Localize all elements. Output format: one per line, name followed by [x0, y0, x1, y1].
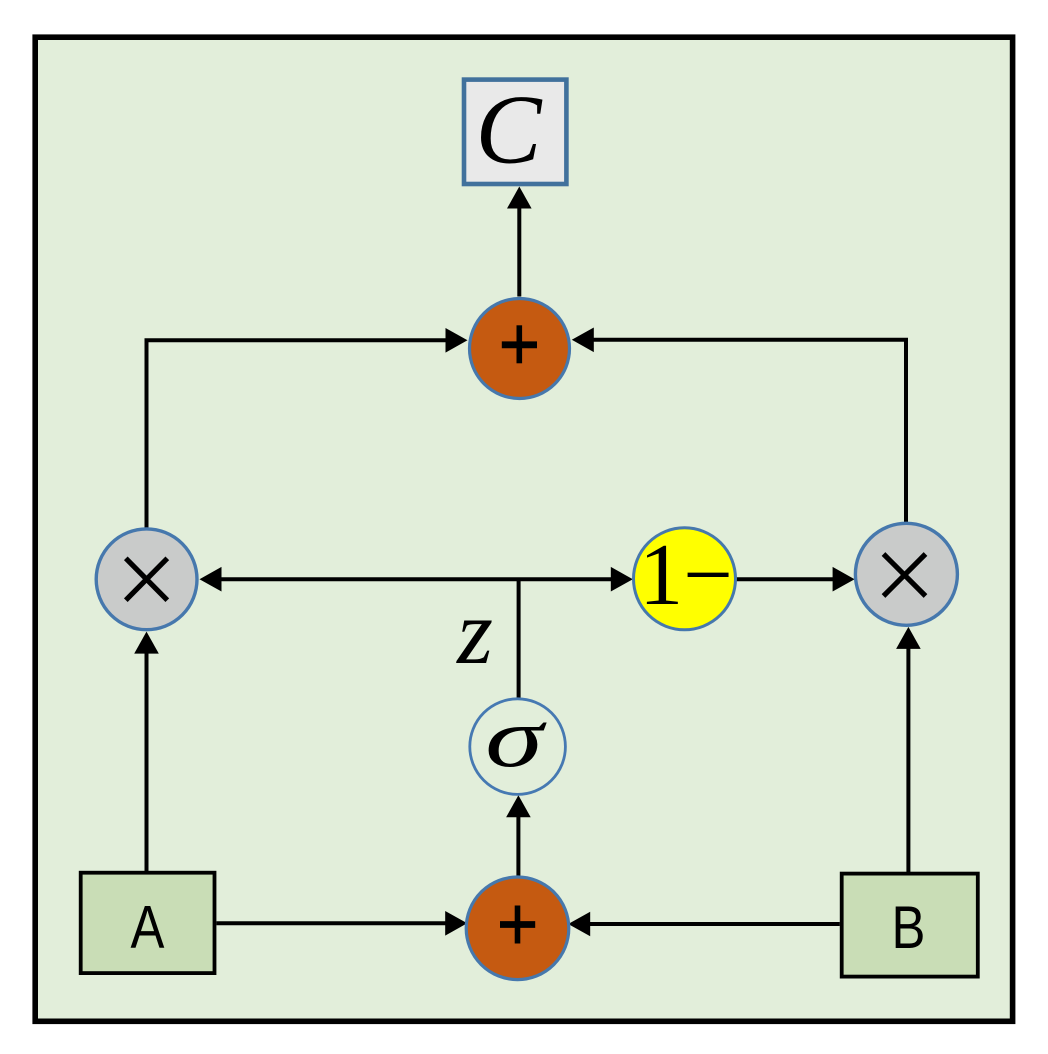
wire center double arrow shaft — [221, 577, 612, 581]
svg-text:σ: σ — [485, 691, 547, 785]
top add node — [470, 299, 570, 399]
bottom add node — [466, 877, 569, 980]
plus sign bottom — [500, 906, 535, 944]
arrowhead into left multiply bottom — [134, 632, 159, 654]
wire A to left multiply shaft — [145, 654, 149, 873]
wire left path (left multiply to top add) — [147, 340, 447, 530]
right multiply node — [855, 523, 957, 625]
wire z line — [517, 578, 521, 700]
arrowhead into bottom add left — [445, 911, 467, 936]
one-minus node — [634, 528, 736, 630]
arrowhead into right multiply — [833, 567, 855, 592]
arrowhead into C — [507, 187, 532, 209]
arrowhead into top add right — [572, 328, 594, 353]
wire A to bottom add shaft — [217, 921, 447, 925]
times sign left — [126, 558, 168, 600]
wire right path (right multiply to top add) — [593, 340, 906, 523]
sigma node — [470, 699, 566, 795]
output box C — [464, 80, 566, 184]
times sign right — [884, 554, 926, 596]
svg-text:C: C — [475, 76, 542, 185]
input box B — [842, 874, 978, 977]
wire one-minus to right multiply shaft — [735, 577, 834, 581]
arrowhead into top add left — [446, 328, 468, 353]
arrowhead into bottom add right — [568, 912, 590, 937]
plus sign top — [502, 325, 537, 363]
left multiply node — [96, 529, 197, 630]
arrowhead into sigma — [506, 795, 531, 817]
arrowhead into left multiply — [200, 567, 222, 592]
svg-text:z: z — [455, 581, 493, 683]
arrowhead into one-minus — [611, 567, 633, 592]
svg-text:A: A — [131, 892, 166, 960]
arrowhead into right multiply bottom — [896, 627, 921, 649]
wire bottom add to sigma shaft — [516, 817, 520, 879]
wire B to right multiply shaft — [906, 649, 910, 874]
wire C arrow shaft — [517, 207, 521, 297]
svg-text:B: B — [892, 893, 926, 961]
input box A — [81, 873, 215, 973]
svg-text:1−: 1− — [639, 527, 733, 624]
wire B to bottom add shaft — [590, 922, 840, 926]
